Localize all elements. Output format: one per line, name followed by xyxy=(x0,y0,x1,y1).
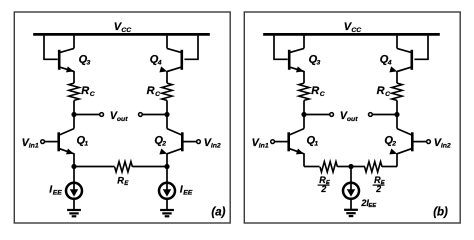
wire: Q1 emitter to RE/2 left (b) xyxy=(304,166,320,168)
resistor RE/2 left (b) xyxy=(320,162,337,172)
wire: Vin1 to Q1 base (b) xyxy=(275,141,288,143)
wire: centre tail node to RE/2 right (b) xyxy=(351,166,365,168)
svg-text:out: out xyxy=(347,116,358,123)
terminal Vout right (a) xyxy=(139,113,143,117)
wire: left tail node to IEE source (a) xyxy=(73,167,75,184)
wire: VCC rail to Q3 base (a) xyxy=(44,33,58,59)
ground (b) xyxy=(344,209,358,211)
junction: left collector node (b) xyxy=(301,112,306,117)
wire: Q3 collector to VCC rail (b) xyxy=(303,33,305,48)
resistor RC right (b) xyxy=(392,83,402,100)
svg-text:2: 2 xyxy=(161,141,166,148)
wire: Q3 emitter to RC left (a) xyxy=(73,71,75,83)
svg-text:R: R xyxy=(147,85,155,97)
VCC power rail (b) xyxy=(263,33,440,36)
svg-text:EE: EE xyxy=(368,203,377,209)
svg-text:EE: EE xyxy=(183,190,193,197)
wire: left node to Vout terminal (a) xyxy=(74,114,100,116)
transistor Q2 (b) xyxy=(411,132,414,151)
wire: RC right to output node (b) xyxy=(396,100,398,114)
wire: Q1 emitter down (a) xyxy=(73,153,75,166)
svg-text:C: C xyxy=(320,91,325,98)
terminal Vout left (a) xyxy=(100,113,104,117)
wire: Q4 collector to VCC rail (a) xyxy=(166,33,168,48)
wire: Q4 collector to VCC rail (b) xyxy=(396,33,398,48)
current source IEE right (a) xyxy=(159,183,175,199)
svg-text:(a): (a) xyxy=(211,207,225,219)
svg-text:E: E xyxy=(124,180,129,187)
wire: RE/2 left to centre tail node (b) xyxy=(337,166,351,168)
svg-text:R: R xyxy=(377,85,385,97)
svg-text:2: 2 xyxy=(320,184,326,194)
junction: Q2 emitter tail node (a) xyxy=(164,164,169,169)
wire: RC left to output node (a) xyxy=(73,100,75,114)
panel (a) frame xyxy=(14,12,230,223)
svg-text:in1: in1 xyxy=(259,143,269,150)
transistor Q3 (b) xyxy=(288,50,291,70)
wire: Q3 emitter to RC left (b) xyxy=(303,71,305,83)
svg-text:4: 4 xyxy=(157,59,162,66)
current source IEE left (a) xyxy=(66,183,82,199)
svg-text:in1: in1 xyxy=(29,143,39,150)
wire: VCC rail to Q4 base (b) xyxy=(414,33,428,59)
wire: RE/2 right to Q2 emitter (b) xyxy=(382,166,397,168)
transistor Q4 (b) xyxy=(410,50,413,70)
resistor RE (a) xyxy=(115,162,133,172)
svg-text:C: C xyxy=(155,91,160,98)
svg-text:(b): (b) xyxy=(433,206,448,218)
wire: RE to right tail node (a) xyxy=(132,166,167,168)
wire: Vin2 to Q2 base (b) xyxy=(413,141,426,143)
resistor RC left (b) xyxy=(299,83,309,100)
svg-text:4: 4 xyxy=(387,59,392,66)
wire: left tail node to RE (a) xyxy=(74,166,115,168)
svg-text:1: 1 xyxy=(84,141,88,148)
wire: Q1 emitter down (b) xyxy=(303,153,305,166)
svg-text:2: 2 xyxy=(375,184,381,194)
junction: left collector node (a) xyxy=(71,112,76,117)
wire: VCC rail to Q4 base (a) xyxy=(184,33,198,59)
terminal Vout left (b) xyxy=(330,113,334,117)
svg-text:EE: EE xyxy=(53,190,63,197)
input terminal Vin1 (a) xyxy=(41,140,45,144)
svg-text:CC: CC xyxy=(121,27,131,34)
svg-text:2: 2 xyxy=(391,141,396,148)
wire: Vout terminal to right node (a) xyxy=(143,114,167,116)
terminal Vout right (b) xyxy=(369,113,373,117)
wire: Q1 collector to left node (a) xyxy=(73,115,75,129)
wire: Q3 collector to VCC rail (a) xyxy=(73,33,75,48)
input terminal Vin2 (a) xyxy=(197,140,201,144)
svg-text:R: R xyxy=(311,85,319,97)
ground right (a) xyxy=(160,209,174,211)
transistor Q2 (a) xyxy=(181,132,184,151)
wire: RC left to output node (b) xyxy=(303,100,305,114)
wire: left node to Vout terminal (b) xyxy=(304,114,330,116)
wire: VCC rail to Q3 base (b) xyxy=(274,33,288,59)
svg-text:in2: in2 xyxy=(211,143,221,150)
svg-text:C: C xyxy=(385,91,390,98)
svg-text:out: out xyxy=(117,116,128,123)
VCC power rail (a) xyxy=(33,33,210,36)
wire: Vin1 to Q1 base (a) xyxy=(45,141,58,143)
svg-text:CC: CC xyxy=(351,27,361,34)
transistor Q3 (a) xyxy=(58,50,61,70)
wire: Q4 emitter to RC right (a) xyxy=(166,71,168,83)
wire: IEE right to ground (a) xyxy=(166,198,168,210)
wire: 2IEE to ground (b) xyxy=(350,198,352,209)
svg-text:1: 1 xyxy=(314,141,318,148)
wire: Q2 emitter down (b) xyxy=(396,153,398,166)
input terminal Vin1 (b) xyxy=(271,140,275,144)
svg-text:in2: in2 xyxy=(441,143,451,150)
wire: Q2 emitter down (a) xyxy=(166,153,168,166)
transistor Q1 (a) xyxy=(57,132,60,151)
wire: IEE left to ground (a) xyxy=(73,198,75,210)
junction: right collector node (b) xyxy=(394,112,399,117)
wire: Vout terminal to right node (b) xyxy=(373,114,397,116)
resistor RC right (a) xyxy=(162,83,172,100)
junction: centre tail node (b) xyxy=(348,164,353,169)
wire: RC right to output node (a) xyxy=(166,100,168,114)
svg-text:C: C xyxy=(90,91,95,98)
junction: Q1 emitter tail node (a) xyxy=(71,164,76,169)
resistor RC left (a) xyxy=(69,83,79,100)
transistor Q4 (a) xyxy=(181,50,184,70)
transistor Q1 (b) xyxy=(287,132,290,151)
current source 2IEE (b) xyxy=(343,183,359,199)
svg-text:3: 3 xyxy=(317,59,321,66)
svg-text:R: R xyxy=(81,85,89,97)
ground left (a) xyxy=(67,209,81,211)
resistor RE/2 right (b) xyxy=(365,162,382,172)
panel (b) frame xyxy=(244,12,460,223)
wire: Q2 collector to right node (b) xyxy=(396,115,398,129)
svg-text:3: 3 xyxy=(87,59,91,66)
input terminal Vin2 (b) xyxy=(427,140,431,144)
wire: Q1 collector to left node (b) xyxy=(303,115,305,129)
wire: centre tail node to 2IEE source (b) xyxy=(350,167,352,184)
wire: Vin2 to Q2 base (a) xyxy=(183,141,196,143)
svg-text:R: R xyxy=(117,175,124,185)
junction: right collector node (a) xyxy=(164,112,169,117)
wire: Q4 emitter to RC right (b) xyxy=(396,71,398,83)
wire: right tail node to IEE source (a) xyxy=(166,167,168,184)
wire: Q2 collector to right node (a) xyxy=(166,115,168,129)
